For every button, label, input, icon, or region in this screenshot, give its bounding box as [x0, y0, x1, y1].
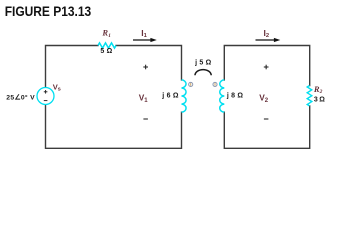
svg-text:25∠0° V: 25∠0° V — [6, 93, 35, 101]
svg-text:V1: V1 — [139, 93, 149, 104]
svg-text:V2: V2 — [259, 93, 269, 104]
svg-text:FIGURE P13.13: FIGURE P13.13 — [5, 4, 92, 19]
svg-text:Vs: Vs — [53, 83, 61, 93]
svg-text:R2: R2 — [313, 84, 323, 95]
svg-text:3: 3 — [314, 96, 318, 103]
svg-text:I1: I1 — [141, 28, 147, 39]
svg-text:Ω: Ω — [107, 48, 113, 55]
svg-text:j 8 Ω: j 8 Ω — [226, 92, 244, 99]
svg-text:j 5 Ω: j 5 Ω — [194, 59, 212, 66]
svg-text:Ω: Ω — [319, 96, 325, 103]
svg-text:R1: R1 — [101, 28, 111, 39]
svg-text:5: 5 — [100, 48, 104, 55]
svg-text:I2: I2 — [264, 28, 270, 39]
svg-text:j 6 Ω: j 6 Ω — [161, 92, 179, 99]
